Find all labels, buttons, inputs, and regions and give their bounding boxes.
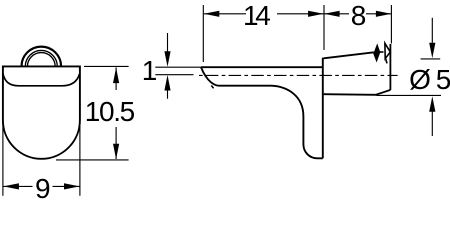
svg-text:Ø: Ø <box>409 64 431 95</box>
svg-text:9: 9 <box>35 173 51 200</box>
svg-text:10.5: 10.5 <box>85 96 136 127</box>
svg-text:4: 4 <box>255 0 271 31</box>
svg-text:5: 5 <box>436 64 450 95</box>
svg-text:8: 8 <box>351 0 367 31</box>
svg-text:1: 1 <box>142 55 158 86</box>
